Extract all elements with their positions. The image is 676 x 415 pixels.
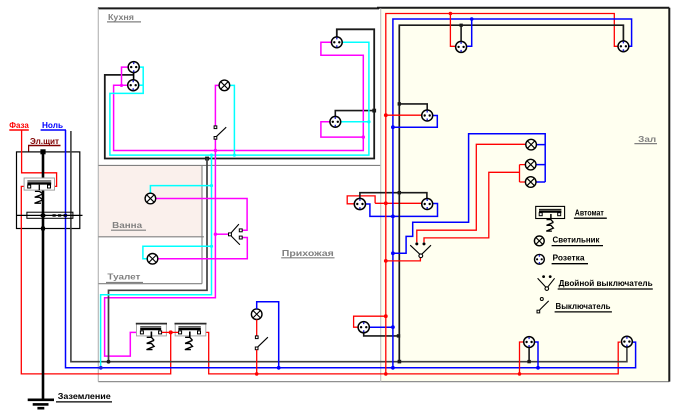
node blue junction X6 [391,215,395,219]
wire black drop to socket X8 [460,25,462,41]
wire phase red output: breaker left contact down to bottom bus and up to apartment breakers junction [21,186,170,374]
wire cyan socket X2 stub [139,84,144,86]
wire phase red from Фаза into breaker right contact [22,130,57,186]
wire cyan kitchen light drop [230,85,235,155]
wire blue X6-X7 null [365,204,437,217]
label Ноль [41,120,66,130]
node black junction X8 [460,24,463,27]
hall Зал top wall [377,7,669,9]
node blue junction X11 [536,366,540,370]
bath bottom wall [98,236,203,238]
socket X1 kitchen [128,62,139,73]
node black square top of panel [40,149,45,154]
socket X9 hall top right [618,41,629,52]
hall Зал right wall [668,8,670,382]
svg-text:Светильник: Светильник [553,235,601,245]
wire red switch S4 output 2 to lamps E6 E7 [424,165,525,243]
node red junction X6 [384,201,388,205]
legend label Двойной выключатель [558,278,653,289]
legend label Розетка [552,253,588,264]
lamp E3 toilet light [147,253,158,264]
bath top wall [98,164,380,166]
lamp E2 bath light [145,193,156,204]
wire cyan null kitchen: socket X1 right, left drop, bottom bus, right riser to socket X3 [110,42,369,155]
apartment left wall [97,8,99,381]
socket X7 hall wall lower [422,199,433,210]
node black junction X11 [527,360,530,363]
node black T-junction kitchen bottom [205,157,209,161]
wire main black earth conductor [42,152,45,399]
svg-text:Зал: Зал [638,134,656,144]
svg-text:Выключатель: Выключатель [556,301,611,311]
wire magenta bath light to switch S2 upper contact [156,199,247,231]
label Кухня [107,12,141,22]
wire red feed to double switch S4 pivot [386,258,421,261]
node black junction X5 [397,334,400,337]
lamp E6 hall light 2 [525,159,536,170]
socket X3 kitchen top right [331,37,342,48]
legend lamp icon Светильник [534,236,544,246]
node red junction X11 [518,372,522,376]
node bus bar main junction [40,213,45,217]
wire blue to socket X10 [393,116,437,128]
wire black hall riser and top run [399,25,623,362]
label Заземление [56,391,112,402]
node black junction hall riser at grey bus [398,360,402,364]
breaker U1 panel automat icon [24,178,54,190]
node red junction S4 [384,259,388,263]
node cyan junction kitchen bus [210,154,213,157]
wire magenta phase kitchen: socket X2 left, bottom bus, right riser to socket X3 [114,42,364,150]
node junction blue-bus-bar [64,214,68,218]
node blue junction hall riser at blue bus [391,366,395,370]
wire red hallway light to switch S3 [256,320,258,336]
socket X5 hallway [358,322,369,333]
node cyan junction toilet [210,245,213,248]
socket X6 hallway wall [354,198,365,209]
wire blue socket X11 drop [535,342,538,368]
node red junction hall riser at red bus [384,372,388,376]
room Зал fill [381,9,669,382]
node blue junction X8 [470,17,474,21]
label Зал [634,134,657,144]
spring of panel breaker [35,185,43,204]
node black junction X10 [398,102,401,105]
node blue junction X5 [391,325,395,329]
wire red switch S4 output 1 to lamp E5 [417,144,526,242]
svg-text:Двойной выключатель: Двойной выключатель [559,278,653,288]
wire red hallway socket X5 [354,316,386,327]
wire black socket X11 drop [528,347,530,361]
legend label Выключатель [555,301,612,312]
wire red hallway socket X6 with detour [347,196,422,204]
wire red drop to socket X8 [450,14,455,47]
wire black ground kitchen: feed to socket pair, bottom run, right riser to socket X3 [105,29,374,158]
legend breaker icon Автомат [536,206,565,231]
svg-text:Эл.щит: Эл.щит [30,136,59,146]
node magenta junction kitchen bus [214,149,217,152]
wire black to socket X10 [399,104,427,111]
wire black link between socket X1 and X2 [133,73,135,80]
wire magenta feed to switch S2 pivot [215,233,228,235]
wire maroon label-to-panel [28,146,30,152]
legend socket icon Розетка [535,254,545,264]
wire blue drop to socket X8 [466,19,471,46]
node grey junction on grey bus [107,360,111,364]
apartment bottom wall [98,381,669,383]
lamp E7 hall light 3 [525,177,536,188]
node black T-junction kitchen right [372,109,376,113]
switch S4 double hall [410,242,431,257]
hall Зал left wall [380,8,382,381]
node magenta junction riser-pivot [214,233,217,236]
node blue junction hallway light [277,366,281,370]
socket X11 hall bottom [524,337,535,348]
label Туалет [106,272,143,283]
wire black ground socket X5 [364,333,399,336]
node blue junction S4 loop [391,251,395,255]
wire cyan bath light branch [150,186,211,194]
wire grey ground drop from kitchen wall through bath to bottom bus [109,159,208,362]
node junction cyan-blue bus [99,366,103,370]
label Ванна [111,220,146,230]
svg-text:Кухня: Кухня [108,12,134,22]
node panel bottom junction [41,226,45,232]
node black junction X6 [398,191,401,194]
svg-text:Ноль: Ноль [42,120,63,130]
room Ванна fill [99,166,202,236]
ground symbol Заземление [28,400,54,408]
switch S3 hallway [255,336,268,350]
bath-toilet right wall [201,165,203,283]
wire blue null loop to hall lamps [393,134,545,254]
socket X2 kitchen [128,80,139,91]
node magenta junction right riser [362,135,365,138]
wire magenta toilet light to switch S2 lower contact [158,238,248,259]
node red junction X5 [384,314,388,318]
node blue junction X10 [391,125,395,129]
wire red hall riser and top run [386,14,619,374]
lamp E4 hallway light [251,309,262,320]
kitchen top wall [98,7,379,9]
breaker U3 automat sockets [175,324,207,350]
svg-text:Фаза: Фаза [9,120,29,130]
wire red link between breakers [162,331,179,333]
wire neutral blue from Ноль down through bus bar to bottom blue bus and hall corner socket [66,130,636,368]
node red junction X8 [449,12,453,16]
legend double switch icon [538,275,555,290]
node cyan junction right riser [367,120,370,123]
socket X8 hall top [456,41,467,52]
wire red bus right segment: breaker2 output along bottom to hall corner socket [201,332,621,374]
wire black ground X6-X7 [360,193,427,200]
wire red switch S3 to red bus [256,350,258,374]
wire black ground socket X4 [335,111,374,117]
label Фаза [9,120,29,130]
lamp E5 hall light 1 [526,139,537,150]
wire magenta kitchen light to switch S1 and main lighting riser down to breaker [105,85,220,356]
legend label Светильник [552,235,603,246]
wire blue hall riser and top run [393,19,632,368]
breaker U2 automat kitchen-bath lighting [136,324,167,350]
node red junction breakers feed [169,330,173,334]
legend label Автомат [574,208,607,219]
svg-text:Розетка: Розетка [553,253,585,263]
svg-text:Ванна: Ванна [112,220,142,230]
toilet bottom wall [98,283,202,285]
wire ground grey distribution: from panel down, bottom grey bus to corner socket [71,131,627,362]
legend switch icon Выключатель [537,298,549,313]
svg-text:Прихожая: Прихожая [282,248,334,258]
wire blue hallway socket X5 [369,326,393,328]
wire magenta socket X4 branch [321,122,363,137]
wire cyan toilet light branch [143,246,212,258]
wire magenta socket X1 drop [122,67,129,86]
node cyan junction bath [210,184,213,187]
wire cyan null drop: kitchen bus to bath and toilet lights then to blue bus [101,155,212,368]
bus bar null [17,212,83,218]
node red junction X10 [384,113,388,117]
svg-text:Заземление: Заземление [58,391,111,401]
label Прихожая [281,248,334,258]
wire cyan socket X4 stub [341,121,369,123]
wire blue hallway light to blue bus [257,302,279,368]
node magenta junction X1-X2 [120,84,123,87]
socket X12 hall bottom right corner [622,336,633,347]
svg-text:Туалет: Туалет [107,272,140,282]
label Эл.щит [28,136,61,146]
socket X10 hall left wall [422,110,433,121]
node red junction hallway switch [255,372,259,376]
switch S2 double bath-toilet [229,224,243,245]
socket X4 kitchen right [330,116,341,127]
switch S1 kitchen [214,126,226,139]
lamp E1 kitchen light [219,80,230,91]
wire red socket X11 drop [520,342,524,374]
svg-text:Автомат: Автомат [575,208,604,218]
node cyan junction light-bus [233,154,236,157]
panel box Эл.щит [17,152,80,229]
wire red to socket X10 [386,114,422,116]
